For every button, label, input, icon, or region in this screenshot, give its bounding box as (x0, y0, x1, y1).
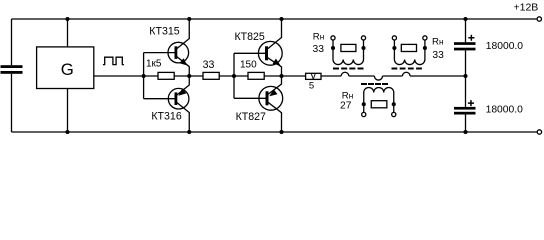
polarity + bottom (468, 100, 474, 106)
svg-text:27: 27 (340, 101, 352, 112)
capacitor C1 input left (1, 65, 23, 68)
svg-text:Rн: Rн (313, 32, 324, 43)
wire base feed vertical Q3/Q4 (233, 53, 235, 98)
node Q3 collector rail junction (279, 17, 283, 21)
wire base lead Q3 (234, 52, 265, 54)
node caps midpoint (463, 74, 467, 78)
wire T1 to T3 primary (349, 75, 375, 77)
capacitor C3 18000 bottom (454, 107, 476, 110)
wire base lead Q1 (144, 52, 175, 54)
resistor Rn2 load (401, 44, 416, 51)
node right column bottom rail (463, 130, 467, 134)
wire base lead Q4 (234, 97, 266, 99)
wire G bottom to rail (67, 89, 69, 133)
svg-text:33: 33 (432, 50, 444, 61)
resistor R2 33 (203, 72, 219, 79)
transformer T3 secondary (362, 88, 396, 117)
core T2 (392, 67, 423, 69)
wire R1 to node B (174, 75, 203, 77)
wire T3 to T2 primary (383, 75, 403, 77)
svg-text:150: 150 (240, 59, 257, 70)
wire left edge top (11, 19, 13, 65)
svg-text:33: 33 (313, 44, 325, 55)
transformer T1 secondary (331, 36, 366, 65)
transistor Q1 KT315 (168, 19, 189, 76)
transformer T1 primary hump (341, 72, 349, 76)
svg-text:5: 5 (309, 80, 314, 91)
svg-text:18000.0: 18000.0 (486, 41, 523, 52)
squarewave signal symbol (103, 57, 124, 64)
resistor R1 1k5 (158, 72, 174, 79)
node G top rail junction (65, 17, 69, 21)
wire base lead Q2 (144, 98, 175, 100)
terminal bottom right (537, 130, 541, 134)
node G bottom rail junction (65, 130, 69, 134)
svg-text:G: G (61, 60, 74, 79)
node Q1 collector rail junction (187, 17, 191, 21)
wire R3 to node D (264, 75, 305, 77)
node D emitters Q3/Q4 (279, 74, 283, 78)
wire R2 to node C (219, 75, 248, 77)
wire right column top (465, 19, 467, 42)
svg-text:18000.0: 18000.0 (486, 105, 523, 116)
wire top supply rail +12V (12, 18, 537, 20)
transistor Q3 KT825 (258, 19, 282, 76)
resistor R3 150 (248, 72, 264, 79)
capacitor C2 18000 top (454, 42, 476, 45)
resistor Rn3 load (371, 101, 387, 108)
svg-text:Rн: Rн (432, 36, 443, 47)
transformer T2 secondary (392, 36, 427, 65)
wire right column bottom (465, 115, 467, 133)
transformer T3 primary hump (374, 76, 382, 80)
node right column top rail (463, 17, 467, 21)
node Q4 collector rail junction (279, 130, 283, 134)
node B emitters Q1/Q2 (187, 74, 191, 78)
wire G top to rail (67, 19, 69, 47)
transformer T2 primary hump (403, 72, 411, 76)
wire left edge bottom (11, 74, 13, 132)
wire G output to R1 (94, 75, 158, 77)
polarity + top (468, 35, 474, 41)
wire T2 primary to caps midpoint (410, 75, 466, 77)
resistor Rn1 load (341, 44, 356, 51)
svg-text:+12В: +12В (514, 1, 539, 13)
svg-text:КТ316: КТ316 (151, 111, 181, 123)
svg-text:КТ825: КТ825 (235, 31, 265, 43)
svg-text:1к5: 1к5 (146, 59, 162, 70)
core T1 (333, 67, 364, 69)
terminal +12V (537, 17, 541, 21)
node A bases KT315/KT316 (142, 74, 146, 78)
node Q2 collector rail junction (187, 130, 191, 134)
generator G box (37, 47, 94, 89)
svg-text:КТ315: КТ315 (149, 25, 179, 37)
wire right column middle (465, 50, 467, 107)
wire fuse to T1 primary (321, 75, 341, 77)
transistor Q4 KT827 (259, 76, 283, 132)
wire base feed vertical Q1/Q2 (143, 53, 145, 99)
svg-text:КТ827: КТ827 (236, 111, 266, 123)
svg-text:33: 33 (203, 59, 215, 71)
core T3 (361, 83, 388, 85)
transistor Q2 KT316 (168, 76, 189, 132)
wire bottom ground rail (12, 131, 537, 133)
node C bases KT825/KT827 (232, 74, 236, 78)
fuse FU1 V (306, 73, 321, 79)
